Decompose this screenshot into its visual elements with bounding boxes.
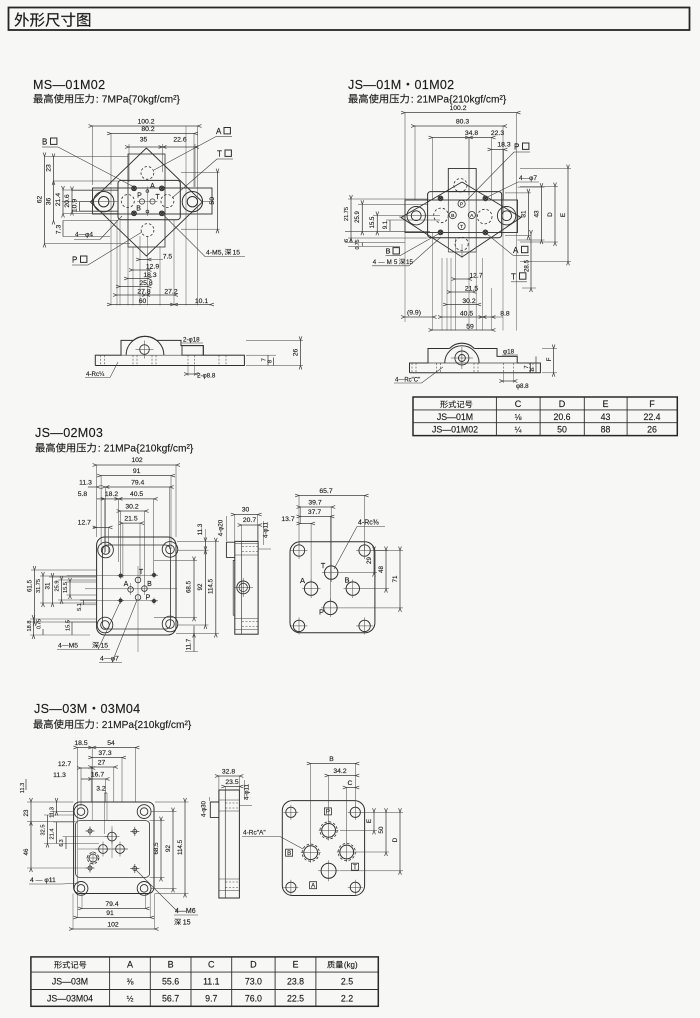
MS side label 2-phi8.8: [187, 366, 189, 377]
JS3 side outline: [219, 790, 240, 898]
JS1 diamond plate outline: [401, 182, 521, 257]
MS tall port rect: [128, 154, 165, 247]
svg-text:15.5: 15.5: [66, 620, 72, 631]
JS1 big mounting hole left: [407, 207, 425, 225]
JS2R corner holes: [293, 545, 304, 556]
MS bottom stacked dims: [110, 187, 112, 306]
JS2 side left lower step: [233, 560, 235, 615]
svg-text:2.5: 2.5: [341, 976, 353, 986]
svg-text:B: B: [329, 756, 334, 763]
svg-text:T: T: [217, 150, 222, 159]
svg-text:22.5: 22.5: [287, 993, 304, 1003]
JS3 side left tab: [210, 802, 219, 817]
svg-text:91: 91: [106, 910, 114, 917]
svg-text:80.2: 80.2: [141, 126, 154, 133]
svg-text:5.8: 5.8: [78, 491, 88, 498]
JS1 tall rect sides: [447, 192, 449, 252]
MS side dome arc full: [126, 336, 164, 355]
svg-text:P: P: [460, 202, 463, 208]
svg-text:68.5: 68.5: [153, 842, 160, 855]
dim 7.3: [63, 220, 118, 222]
svg-text:⅛: ⅛: [515, 413, 522, 422]
svg-text:73.0: 73.0: [245, 976, 262, 986]
JS3 side inner line: [224, 790, 226, 898]
JS-03M side view group: [202, 769, 253, 899]
JS-02M03 right flange view group: [281, 488, 403, 634]
JS2 side dim 20.7: [241, 525, 243, 541]
MS side crosshair circle: [140, 345, 150, 355]
JS1 side dims right: [542, 348, 557, 350]
svg-text:E: E: [292, 959, 298, 969]
MS diamond plate outline: [90, 148, 202, 256]
svg-text:11.3: 11.3: [53, 772, 66, 779]
JS1 centerlines: [399, 216, 405, 218]
JS1 side dashed holes: [411, 363, 413, 373]
svg-text:4 — M 5: 4 — M 5: [373, 259, 398, 266]
svg-text:11.3: 11.3: [20, 783, 26, 793]
JS1 side phi8.8 callout: [502, 373, 504, 383]
dim 100.2: [92, 126, 94, 185]
svg-text:4-φ20: 4-φ20: [218, 519, 225, 536]
JS3R corner holes: [286, 807, 296, 817]
JS2 right dims: [154, 560, 197, 562]
svg-text:4-Rc¼: 4-Rc¼: [86, 371, 105, 378]
svg-text:65.7: 65.7: [319, 488, 332, 495]
svg-text:55.6: 55.6: [162, 976, 179, 986]
svg-text:3.2: 3.2: [96, 786, 106, 793]
svg-text:23.5: 23.5: [225, 779, 238, 786]
svg-text:B: B: [168, 959, 174, 969]
svg-text:13.7: 13.7: [281, 516, 294, 523]
svg-text:21.75: 21.75: [344, 207, 350, 221]
svg-text:5.1: 5.1: [77, 603, 83, 611]
svg-text:8: 8: [530, 368, 536, 371]
dim 35 and 22.6: [128, 144, 130, 182]
MS port P (dashed): [121, 195, 134, 208]
JS3 side dim 32.8: [218, 776, 220, 790]
svg-text:26: 26: [293, 349, 300, 357]
svg-text:D: D: [250, 959, 257, 969]
JS1 valve body outline: [428, 192, 502, 238]
svg-text:7.5: 7.5: [163, 254, 173, 261]
svg-text:31: 31: [521, 210, 528, 218]
JS2 inner face rect: [103, 545, 171, 629]
table2 header row: [54, 961, 62, 968]
svg-text:MS—01M02: MS—01M02: [33, 78, 105, 92]
svg-text:C: C: [208, 959, 215, 969]
svg-text:27.2: 27.2: [164, 289, 177, 296]
svg-text:12.7: 12.7: [58, 761, 71, 768]
svg-text:27: 27: [98, 760, 106, 767]
svg-text:A: A: [127, 959, 133, 969]
svg-text:(kg): (kg): [344, 960, 358, 969]
svg-text:68.5: 68.5: [186, 580, 193, 593]
svg-text:40.5: 40.5: [460, 311, 473, 318]
JS2 plate outline: [97, 537, 176, 635]
svg-text:23: 23: [23, 809, 30, 816]
svg-text:32.8: 32.8: [222, 769, 235, 776]
JS3 left dims: [27, 801, 74, 803]
svg-text:P: P: [72, 256, 77, 265]
svg-text::: :: [96, 719, 99, 731]
JS2R port B: [346, 582, 359, 595]
svg-text:A: A: [124, 581, 129, 588]
svg-text:21.4: 21.4: [50, 829, 56, 840]
MS pressure line: [33, 94, 42, 103]
svg-text:25.9: 25.9: [355, 211, 361, 223]
MS side ledge line: [95, 354, 244, 356]
svg-text:32.5: 32.5: [41, 825, 47, 836]
JS3R top dims: [310, 764, 312, 846]
svg-text:71: 71: [392, 575, 399, 582]
svg-text:0.75: 0.75: [355, 239, 361, 249]
JS1 big mounting hole right: [497, 207, 515, 225]
svg-text:12.9: 12.9: [146, 264, 159, 271]
svg-text:29: 29: [366, 557, 373, 564]
svg-text:36: 36: [46, 198, 53, 206]
svg-text:4-φ30: 4-φ30: [202, 800, 208, 817]
svg-text:61.5: 61.5: [27, 579, 34, 592]
JS2R port P: [324, 601, 337, 614]
JS2 corner hole TL: [98, 542, 114, 558]
JS1 port A: [468, 212, 475, 219]
MS side dims 7 8: [246, 354, 276, 356]
svg-text:7.3: 7.3: [56, 225, 63, 235]
svg-text:15: 15: [183, 920, 191, 927]
svg-text:P: P: [319, 608, 324, 617]
JS1 dim 80.3: [414, 126, 416, 200]
svg-text::: :: [411, 94, 414, 106]
MS small pilot circles with cross: [139, 199, 144, 204]
JS2R right dims: [373, 550, 388, 552]
svg-text:21.4: 21.4: [55, 193, 62, 206]
svg-text:23: 23: [46, 164, 53, 172]
JS1 mounting bar: [405, 200, 518, 233]
JS-03M right flange view group: [242, 756, 403, 896]
svg-text:C: C: [515, 399, 522, 409]
svg-text:28.5: 28.5: [524, 259, 531, 272]
JS3 top dims: [76, 748, 78, 803]
svg-text:15: 15: [233, 250, 241, 257]
JS1 right dims 31 43 D E: [505, 192, 531, 194]
svg-text:T: T: [353, 865, 357, 871]
svg-text:79.4: 79.4: [131, 479, 144, 486]
JS1 port P: [458, 200, 465, 207]
JS-01M pressure line: [348, 94, 357, 103]
svg-text:E: E: [602, 399, 608, 409]
svg-text:T: T: [139, 569, 144, 576]
svg-text:91: 91: [133, 468, 141, 475]
svg-text:A: A: [300, 576, 305, 585]
JS1 bottom stacked dims: [432, 233, 434, 331]
JS3R flange outline: [282, 801, 364, 896]
JS3 centerlines: [78, 848, 128, 850]
svg-text:4—M6: 4—M6: [175, 908, 196, 915]
svg-text:F: F: [546, 357, 553, 361]
JS1 dim 18.3: [503, 150, 505, 201]
svg-text:30.2: 30.2: [462, 298, 475, 305]
MS side dim 26: [246, 339, 303, 341]
JS1 dim 100.2: [404, 113, 406, 200]
svg-text:54: 54: [107, 740, 115, 747]
svg-text:50: 50: [557, 425, 567, 435]
svg-text:37.7: 37.7: [308, 509, 321, 516]
JS3 corner hole TL: [74, 805, 88, 819]
svg-text:39.7: 39.7: [308, 500, 321, 507]
MS side boss 2-phi18: [182, 346, 203, 356]
svg-text:11.3: 11.3: [79, 479, 92, 486]
svg-text:34.8: 34.8: [465, 130, 478, 137]
MS big mounting hole right: [182, 192, 202, 212]
MS port A top (dashed): [141, 167, 154, 180]
svg-text:88: 88: [601, 425, 611, 435]
svg-text:A: A: [311, 883, 315, 889]
svg-text:21MPa{210kgf/cm²}: 21MPa{210kgf/cm²}: [417, 95, 507, 106]
JS3 plate outline: [74, 802, 154, 894]
svg-text:114.5: 114.5: [177, 839, 184, 855]
svg-text:7MPa{70kgf/cm²}: 7MPa{70kgf/cm²}: [102, 95, 181, 106]
JS2 lower-left dims: [30, 618, 97, 620]
JS1 top boss rect: [448, 169, 476, 192]
MS bottom port (dashed): [141, 224, 154, 237]
svg-text:P: P: [514, 143, 519, 152]
JS-03M left view group: [20, 740, 198, 930]
svg-text:23.8: 23.8: [287, 976, 304, 986]
svg-text:B: B: [42, 138, 47, 147]
svg-text:2-φ18: 2-φ18: [183, 337, 200, 344]
svg-text:φ18: φ18: [503, 349, 515, 356]
svg-text:25.8: 25.8: [139, 280, 152, 287]
svg-text:D: D: [559, 399, 566, 409]
svg-text:18.5: 18.5: [74, 740, 87, 747]
JS3 side dim 23.5: [224, 787, 226, 791]
JS2 port P: [135, 595, 141, 601]
svg-text:8: 8: [268, 360, 274, 363]
svg-text:JS—01M02: JS—01M02: [432, 425, 478, 435]
svg-text:18.2: 18.2: [105, 491, 118, 498]
svg-text:22.6: 22.6: [173, 137, 186, 144]
svg-text:T: T: [155, 194, 160, 201]
JS3R right dims: [362, 811, 403, 813]
JS1 dashed circle left: [434, 208, 449, 223]
svg-text:18.3: 18.3: [497, 142, 510, 149]
svg-text:E: E: [560, 213, 567, 217]
JS3 corner hole TR: [137, 805, 151, 819]
svg-text:31.75: 31.75: [36, 579, 42, 593]
JS2 side outline: [235, 541, 258, 634]
JS2 corner hole TR: [162, 542, 178, 558]
svg-text:30: 30: [242, 507, 250, 514]
JS2R top dims: [298, 496, 300, 546]
dim 80.2: [110, 134, 112, 186]
JS2 port B: [142, 586, 148, 592]
table1 header row: [440, 401, 448, 408]
svg-text:4—M5: 4—M5: [58, 643, 78, 650]
svg-text:4—φ7: 4—φ7: [100, 656, 119, 663]
JS2 port crosslines: [85, 588, 177, 590]
svg-text:20.7: 20.7: [243, 517, 256, 524]
JS-01M side view group: [394, 343, 557, 390]
JS1 dims 34.8 22.3: [432, 138, 434, 201]
JS2 side dashed holes bottom: [242, 621, 258, 623]
svg-text:18.8: 18.8: [27, 621, 33, 632]
svg-text:4-Rc⅜: 4-Rc⅜: [358, 520, 379, 527]
MS side profile outline: [95, 340, 133, 365]
JS3 port circles: [108, 832, 117, 841]
JS3 top-left dim 11.3: [25, 779, 27, 790]
svg-text:4—Rc"C": 4—Rc"C": [395, 378, 420, 384]
svg-text:34.2: 34.2: [333, 768, 346, 775]
svg-text:(9.9): (9.9): [407, 310, 421, 317]
svg-text:30.2: 30.2: [125, 503, 138, 510]
svg-text:20.6: 20.6: [64, 194, 71, 207]
svg-text:11.3: 11.3: [197, 523, 204, 535]
svg-text:25.9: 25.9: [55, 581, 61, 592]
svg-text:9.7: 9.7: [205, 993, 217, 1003]
JS-03M dimension table: [31, 957, 378, 1006]
JS2 corner hole BR: [162, 616, 178, 632]
svg-text:22.4: 22.4: [643, 412, 660, 422]
JS-01M top view group: [344, 105, 571, 331]
svg-text:21MPa{210kgf/cm²}: 21MPa{210kgf/cm²}: [104, 444, 194, 455]
MS 4-M5 bolt holes: [132, 186, 137, 191]
JS3 M6 hole markers: [86, 830, 95, 832]
JS-02M03 left view group: [27, 457, 220, 663]
JS-03M pressure line: [33, 720, 42, 729]
svg-text:43: 43: [601, 412, 611, 422]
JS1 left dims: [348, 198, 428, 200]
MS-01M02 top view group: [37, 119, 246, 306]
JS2 port A: [128, 587, 134, 593]
svg-text:11.3: 11.3: [50, 807, 56, 818]
svg-text:92: 92: [165, 845, 172, 852]
svg-text:76.0: 76.0: [245, 993, 262, 1003]
svg-text:B: B: [147, 581, 152, 588]
svg-text:114.5: 114.5: [208, 578, 215, 594]
JS2 M5 hole markers: [119, 574, 122, 577]
svg-text:15.5: 15.5: [63, 582, 69, 593]
title bar box: [9, 8, 690, 31]
svg-text:B: B: [344, 576, 349, 585]
svg-text:50: 50: [209, 197, 216, 205]
svg-text:JS—03M04: JS—03M04: [47, 993, 93, 1003]
JS2 side left tab: [226, 542, 234, 557]
JS3R boxed port labels: [324, 808, 331, 815]
JS3 corner hole BR: [137, 882, 151, 896]
JS1 side profile outline: [410, 349, 450, 373]
svg-text:B: B: [451, 213, 454, 219]
svg-text:102: 102: [107, 922, 119, 929]
svg-text:P: P: [326, 810, 330, 816]
svg-text:⅜: ⅜: [127, 977, 134, 986]
svg-text:A: A: [513, 246, 519, 255]
svg-text:4—φ4: 4—φ4: [75, 232, 93, 239]
JS2 corner hole BL: [97, 617, 113, 633]
svg-text:100.2: 100.2: [137, 119, 154, 126]
svg-text:φ8.8: φ8.8: [516, 383, 529, 390]
JS1 dims 6 and 0.75: [345, 242, 405, 244]
JS3 corner hole BL: [74, 882, 88, 896]
svg-text:A: A: [150, 183, 155, 190]
svg-text:10.1: 10.1: [195, 298, 208, 305]
dim 50 right side: [181, 172, 220, 174]
JS3R port B circle: [302, 844, 319, 861]
JS2R port A: [304, 582, 317, 595]
svg-text:100.2: 100.2: [449, 105, 466, 112]
svg-text:4—φ7: 4—φ7: [519, 175, 537, 182]
MS mounting bar: [93, 188, 213, 214]
JS2R port T: [325, 566, 338, 579]
svg-text:12.7: 12.7: [78, 520, 91, 527]
MS port T (dashed): [161, 195, 174, 208]
MS-01M02 side view group: [85, 336, 303, 379]
svg-text:21.5: 21.5: [465, 286, 478, 293]
JS2 side center circle: [237, 581, 250, 594]
JS1 port B: [449, 212, 456, 219]
svg-text:JS—03M: JS—03M: [52, 976, 88, 986]
JS2 top dims: [96, 465, 98, 537]
svg-text:D: D: [547, 212, 554, 217]
svg-text:B: B: [386, 247, 391, 256]
svg-text:46: 46: [23, 848, 30, 855]
JS3R port P circle: [320, 822, 337, 839]
svg-text:T: T: [460, 224, 463, 230]
JS-01M dimension table: [413, 397, 677, 436]
svg-text:60: 60: [139, 298, 147, 305]
JS2 side dim 30: [234, 515, 236, 542]
JS3 right dims: [150, 820, 165, 822]
svg-text:B: B: [287, 851, 291, 857]
JS1 dashed circle top: [454, 179, 467, 192]
JS2 dim 11.3 top right: [204, 541, 206, 550]
MS side dashed holes: [100, 355, 102, 365]
JS-02M03 pressure line: [35, 443, 44, 452]
svg-text:56.7: 56.7: [162, 993, 179, 1003]
JS3 bottom dims: [81, 894, 83, 909]
JS2 side inner line: [241, 541, 243, 634]
svg-text:T: T: [511, 272, 516, 281]
svg-text:8.8: 8.8: [500, 311, 510, 318]
JS3 side dashed holes: [226, 802, 240, 804]
svg-text:½: ½: [127, 994, 134, 1003]
JS1 dashed circle bottom: [455, 237, 468, 250]
JS2R flange outline: [290, 542, 375, 633]
svg-text:2.2: 2.2: [341, 993, 353, 1003]
svg-text:T: T: [321, 561, 326, 570]
JS1 side ledge line: [410, 362, 541, 364]
svg-text:15.5: 15.5: [370, 216, 376, 228]
JS-02M03 side view group: [218, 507, 272, 635]
svg-text:P: P: [137, 193, 142, 200]
svg-text:16.7: 16.7: [91, 772, 104, 779]
JS1 bolt holes 4-phi7: [438, 196, 443, 201]
svg-text::: :: [98, 443, 101, 455]
svg-text:15: 15: [101, 643, 109, 650]
svg-text:59: 59: [466, 324, 474, 331]
svg-text:JS—03M・03M04: JS—03M・03M04: [34, 702, 141, 716]
svg-text:21MPa{210kgf/cm²}: 21MPa{210kgf/cm²}: [102, 720, 192, 731]
svg-text:12.7: 12.7: [469, 273, 482, 280]
svg-text:A: A: [216, 127, 222, 136]
svg-text:10.9: 10.9: [72, 199, 79, 212]
JS3R port T circle: [321, 863, 336, 878]
svg-text:JS—02M03: JS—02M03: [35, 426, 103, 440]
svg-text:50: 50: [378, 826, 385, 833]
svg-text:6: 6: [344, 239, 350, 242]
svg-text:11.1: 11.1: [203, 976, 220, 986]
svg-text:6.3: 6.3: [59, 839, 65, 846]
svg-text:102: 102: [131, 457, 143, 464]
